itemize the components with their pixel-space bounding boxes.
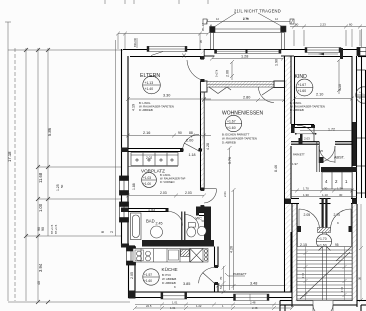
loggia sliding glass door: [204, 50, 294, 56]
svg-text:2.06: 2.06: [226, 70, 230, 77]
vertical dims in WOHNEN: [206, 143, 278, 290]
bathtub: [131, 213, 142, 240]
svg-text:90: 90: [295, 23, 299, 27]
bottom wall: [129, 297, 293, 299]
wall between WOHNEN and right wing: [285, 56, 292, 292]
neighbour east wall at right edge: [353, 56, 366, 198]
svg-text:30: 30: [324, 187, 328, 191]
BRH marking above ELTERN window: [133, 37, 137, 48]
svg-text:2.03: 2.03: [304, 137, 310, 141]
svg-text:3.48: 3.48: [250, 282, 257, 286]
entry door arcs in stair hall: [299, 209, 351, 230]
svg-text:K: K: [174, 285, 176, 289]
svg-text:+1.03: +1.03: [143, 176, 151, 180]
ELTERN door arc: [187, 60, 204, 81]
KUECHE texts: [130, 266, 223, 289]
svg-text:1.30: 1.30: [303, 193, 309, 197]
KIND window (top wall): [305, 48, 343, 60]
stair hall walls: [291, 199, 357, 308]
staircase: [293, 204, 297, 301]
svg-text:3.30: 3.30: [163, 94, 170, 98]
ABST room: [292, 138, 345, 172]
svg-text:11.68: 11.68: [38, 172, 43, 183]
svg-text:88: 88: [189, 131, 193, 135]
KUECHE walls: [215, 247, 219, 293]
KIND room: [291, 56, 357, 198]
left wall window 1: [120, 176, 129, 195]
top extension lines above building: [105, 0, 213, 49]
svg-text:1.00: 1.00: [38, 203, 43, 212]
PARKETT leader: [225, 272, 247, 276]
nicht tragend leader note: [214, 9, 283, 28]
svg-text:D: ABRIEB: D: ABRIEB: [290, 108, 304, 112]
svg-text:D: ABRIEB: D: ABRIEB: [139, 108, 153, 112]
fridge box with X: [190, 249, 203, 263]
door jamb blocks ELTERN: [166, 56, 316, 285]
KIND texts: [290, 74, 342, 132]
BAD / WC texts: [146, 208, 205, 226]
svg-text:5+27k: 5+27k: [215, 69, 219, 77]
stair level circle: [316, 234, 331, 249]
VORPLATZ texts: [132, 169, 186, 191]
svg-text:90: 90: [178, 131, 182, 135]
top dim line in WOHNEN: [210, 55, 285, 81]
svg-text:40: 40: [37, 281, 41, 285]
dimension line through ELTERN y=135: [122, 131, 211, 143]
svg-text:2.70: 2.70: [334, 213, 341, 217]
WOHNEN texts: [222, 111, 264, 145]
svg-text:1.01: 1.01: [172, 301, 178, 305]
left dimension tick marks: [24, 48, 50, 304]
bottom living-room window / terrace door: [234, 294, 270, 301]
svg-text:1.88: 1.88: [132, 183, 136, 190]
left wall lower jog: [122, 245, 136, 247]
svg-text:4.10: 4.10: [338, 84, 342, 91]
svg-text:50: 50: [60, 184, 64, 188]
svg-text:2.10: 2.10: [316, 93, 323, 97]
KUECHE level circle: [143, 269, 159, 285]
svg-text:W: RAUHFASER-TAP: W: RAUHFASER-TAP: [160, 177, 186, 181]
WOHNEN entry door from VORPLATZ: [201, 189, 228, 206]
svg-text:60: 60: [349, 23, 353, 27]
svg-text:5.86: 5.86: [47, 127, 52, 136]
KIND level circle: [296, 79, 313, 96]
svg-text:2.05: 2.05: [304, 213, 311, 217]
neighbour window top right edge: [357, 48, 366, 56]
WC door arc: [185, 215, 199, 229]
svg-text:VORPLATZ: VORPLATZ: [141, 169, 165, 174]
bottom outer corner stubs: [280, 301, 366, 311]
BAD / WC walls: [128, 209, 204, 241]
svg-text:1.90: 1.90: [275, 59, 279, 66]
svg-text:B: LINOL: B: LINOL: [160, 173, 171, 177]
ELTERN bottom wall: [128, 148, 183, 150]
svg-text:4.28: 4.28: [206, 143, 210, 150]
svg-text:2.00: 2.00: [186, 139, 193, 143]
neighbour level circle at right edge: [356, 87, 366, 103]
bottom dim line WOHNEN: [216, 282, 294, 288]
svg-text:1.30: 1.30: [337, 187, 343, 191]
svg-text:BRH 90: BRH 90: [133, 37, 137, 47]
svg-text:70: 70: [219, 276, 223, 280]
svg-text:3.85: 3.85: [183, 282, 190, 286]
svg-text:5.76: 5.76: [228, 157, 232, 164]
svg-text:PARKETT: PARKETT: [233, 272, 247, 276]
WC sink: [197, 226, 206, 235]
left wall kitchen window: [127, 247, 136, 265]
svg-text:+1.60: +1.60: [227, 126, 236, 130]
junction blocks stair top wall: [285, 199, 357, 205]
svg-text:+1.67: +1.67: [227, 120, 236, 124]
ELTERN room walls: [128, 49, 204, 190]
room divider / sliding element in WOHNEN: [201, 81, 287, 103]
loggia / balcony top: [203, 17, 294, 50]
svg-text:4.19: 4.19: [132, 104, 136, 111]
svg-text:2.03: 2.03: [185, 191, 192, 195]
svg-text:17.5: 17.5: [340, 286, 344, 292]
svg-text:+1.60: +1.60: [298, 89, 307, 93]
ELTERN level circle: [143, 76, 161, 94]
svg-text:D: ABRIEB: D: ABRIEB: [222, 141, 236, 145]
exterior walls: [122, 49, 366, 298]
svg-text:1.72: 1.72: [328, 128, 335, 132]
stair dimension chains: [301, 204, 363, 302]
right wall of ELTERN upper: [200, 56, 202, 59]
loggia top dim labels: [199, 17, 293, 43]
svg-text:30: 30: [358, 276, 362, 280]
svg-text:ABST.: ABST.: [334, 156, 345, 160]
svg-text:2.02: 2.02: [146, 156, 152, 160]
KIND bottom wall: [291, 124, 314, 126]
left wall: [121, 49, 123, 246]
svg-text:D: VORNEO: D: VORNEO: [160, 180, 175, 184]
svg-text:+1.97: +1.97: [144, 273, 152, 277]
svg-text:3.94: 3.94: [38, 263, 43, 272]
svg-text:+1.70: +1.70: [318, 237, 327, 241]
shaft room with 4 2 1: [322, 172, 352, 189]
svg-text:1.70: 1.70: [303, 187, 309, 191]
dim line under divider: [202, 96, 286, 103]
stair hall bottom door arc: [313, 301, 333, 311]
svg-text:2.01: 2.01: [223, 191, 227, 197]
svg-text:17.18: 17.18: [7, 151, 12, 162]
svg-text:51: 51: [219, 285, 223, 289]
svg-text:1.97: 1.97: [292, 162, 298, 166]
svg-text:KÜCHE: KÜCHE: [162, 266, 178, 272]
VORPLATZ dim line: [126, 191, 206, 198]
ELTERN texts: [132, 73, 174, 112]
svg-text:2.48: 2.48: [250, 301, 256, 305]
ELTERN window (top wall): [147, 46, 187, 57]
svg-text:95+27: 95+27: [201, 23, 205, 31]
corridor dim rows: [291, 187, 357, 198]
left wall junction blocks: [121, 148, 136, 299]
svg-text:2.80: 2.80: [243, 96, 250, 100]
BAD door arc: [169, 212, 183, 226]
svg-text:+1.60: +1.60: [144, 279, 152, 283]
svg-text:+1.13: +1.13: [145, 81, 154, 85]
svg-text:2.23: 2.23: [320, 23, 326, 27]
svg-text:30: 30: [339, 193, 343, 197]
KIND door arc: [291, 125, 317, 144]
svg-text:PARKETT: PARKETT: [293, 153, 305, 157]
svg-text:1.18: 1.18: [189, 153, 196, 157]
svg-text:1.28: 1.28: [241, 55, 248, 59]
left dimension chain lines: [5, 22, 130, 302]
ELTERN-VORPLATZ door arc: [183, 135, 200, 152]
svg-text:+1.67: +1.67: [298, 83, 307, 87]
left wall window 2: [120, 202, 129, 222]
KUECHE door arc: [199, 268, 215, 284]
svg-text:90: 90: [41, 227, 45, 231]
svg-text:1.98: 1.98: [209, 24, 213, 30]
bottom kitchen window: [161, 293, 187, 300]
kitchen counter: [133, 249, 208, 263]
svg-text:2.03: 2.03: [160, 191, 167, 195]
left dimension labels (rotated): [7, 127, 64, 285]
svg-text:2.45: 2.45: [156, 222, 163, 226]
top-right dim row over KIND: [290, 23, 366, 47]
wardrobe below ELTERN: [128, 153, 196, 167]
hinge blocks: [296, 226, 301, 232]
svg-text:+1.40: +1.40: [145, 87, 154, 91]
svg-text:1.10: 1.10: [322, 193, 328, 197]
svg-text:40: 40: [101, 230, 105, 234]
dark plumbing walls: [142, 207, 214, 247]
BAD sink: [151, 226, 163, 238]
svg-text:8.46: 8.46: [274, 165, 278, 172]
svg-text:2.05: 2.05: [130, 272, 134, 279]
svg-text:WOHNEN/ESSEN: WOHNEN/ESSEN: [222, 111, 264, 117]
VORPLATZ level circle: [142, 173, 157, 188]
svg-text:71: 71: [110, 230, 114, 234]
sill hatch below pier: [318, 228, 331, 233]
ELTERN dim line below 3.30: [126, 97, 211, 101]
svg-text:87+1.5: 87+1.5: [54, 224, 58, 234]
svg-text:4.26: 4.26: [230, 246, 234, 253]
svg-text:17.5: 17.5: [301, 272, 305, 278]
wall hatch fills: [201, 83, 204, 190]
svg-text:95: 95: [199, 39, 203, 43]
WOHNEN level circle: [225, 115, 241, 131]
WC toilet: [187, 223, 196, 237]
svg-text:2.16: 2.16: [143, 131, 150, 135]
svg-text:2.78: 2.78: [243, 17, 249, 21]
KIND dim line: [293, 58, 355, 131]
black pier between entry doors: [322, 198, 324, 228]
svg-text:1.53: 1.53: [148, 208, 155, 212]
top wall outer/inner: [123, 49, 366, 51]
svg-text:BAD: BAD: [146, 219, 155, 224]
svg-text:21/L NICHT TRAGEND: 21/L NICHT TRAGEND: [234, 9, 281, 14]
bottom wall dim line: [133, 301, 294, 311]
bottom tiny dims: [101, 230, 258, 310]
dark wall below ABST: [321, 167, 357, 172]
